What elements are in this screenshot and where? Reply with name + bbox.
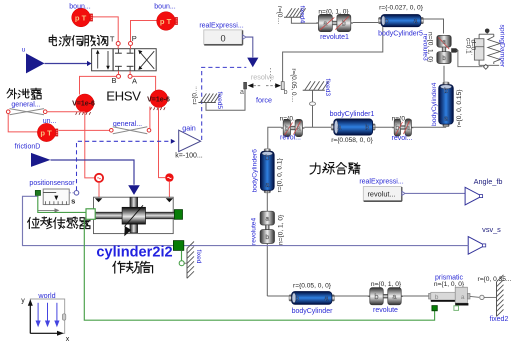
wire into cylinder right port [168, 182, 170, 198]
output nub realExpression2 [402, 191, 405, 195]
svg-text:n={0, 1, 0}: n={0, 1, 0} [427, 32, 434, 63]
svg-text:fixed4: fixed4 [298, 6, 305, 24]
text 力综合臂 [310, 163, 360, 174]
cylinder left fluid port circle [95, 174, 103, 182]
svg-text:a: a [406, 125, 410, 132]
output nub realExpression [243, 35, 246, 39]
bodyCylinder4 [439, 82, 454, 127]
wire revolute4 foot to bodyCylinder [267, 295, 291, 297]
svg-text:bodyCylinder: bodyCylinder [292, 308, 334, 315]
cylinder piston [122, 197, 145, 236]
node general2 right [147, 129, 151, 133]
arrow frictionD into cylinder [128, 185, 140, 195]
svg-text:revolute: revolute [373, 307, 398, 314]
wire realExpression to force [246, 37, 253, 57]
wire realExpression2 to Angle_fb [405, 192, 465, 194]
volume1 V=1e-6 [76, 94, 94, 115]
svg-text:springDamper: springDamper [499, 25, 506, 68]
svg-text:y: y [21, 298, 25, 305]
svg-text:revolute4: revolute4 [251, 218, 258, 245]
arrow into cylinder left port [96, 197, 102, 201]
svg-text:vsv_s: vsv_s [482, 225, 501, 234]
svg-text:force: force [256, 96, 272, 105]
svg-text:b: b [375, 294, 379, 301]
spring damper attachment nub [451, 48, 458, 52]
svg-text:fixed5: fixed5 [216, 92, 223, 110]
svg-text:boun...: boun... [154, 3, 175, 10]
fixed anchor circle [179, 261, 184, 266]
prismatic support square (green) [432, 306, 437, 311]
svg-text:p T: p T [75, 13, 87, 22]
fixed3 wire ellipse marker [309, 102, 315, 106]
svg-text:b: b [285, 126, 289, 133]
wire frictionD to cylinder [51, 160, 135, 185]
svg-text:a: a [337, 125, 341, 132]
svg-text:positionsensor: positionsensor [29, 180, 75, 187]
svg-text:a: a [324, 296, 328, 303]
svg-text:general...: general... [11, 101, 40, 108]
svg-text:a: a [444, 116, 448, 123]
svg-text:n={0, 1, 0}: n={0, 1, 0} [277, 214, 284, 245]
svg-text:b: b [385, 18, 389, 25]
valve port node B [117, 74, 121, 78]
bodyCylinder1 [331, 119, 375, 135]
svg-text:a: a [323, 21, 327, 28]
svg-text:r={0.05, 0....: r={0.05, 0.... [290, 68, 297, 102]
fixed4 hatch wall [284, 8, 306, 17]
positionsensor flange square [35, 190, 40, 195]
wire long vsv_s signal [23, 196, 469, 245]
svg-text:r={0, 0, 0.1}: r={0, 0, 0.1} [276, 157, 283, 192]
bodyCylinder5 [378, 15, 423, 27]
positionsensor box [43, 189, 69, 205]
text 电液伺服阀 [49, 35, 108, 46]
wire volume2 down to cylinder right port [159, 107, 166, 177]
valve centre cell blocked ports [115, 49, 134, 71]
svg-text:u: u [22, 47, 26, 54]
volume2 V=1e-6 [150, 90, 168, 110]
wire T-port to boundary1 [92, 17, 118, 41]
arrow into gain [171, 139, 176, 144]
svg-text:b: b [395, 125, 399, 132]
svg-text:cylinder2i2: cylinder2i2 [96, 244, 172, 260]
bodyCylinder6 [260, 149, 274, 193]
boundary source un (pT) [37, 123, 57, 141]
wire bodyCylinder4 down to arm [445, 124, 447, 127]
wire u to valve [45, 63, 88, 65]
svg-text:fixed3: fixed3 [324, 79, 331, 97]
svg-text:boun...: boun... [69, 3, 90, 10]
svg-text:bodyCylinder5: bodyCylinder5 [378, 30, 423, 37]
svg-text:n={0, 1, 0}: n={0, 1, 0} [371, 281, 402, 288]
cylinder2i2 actuator body [94, 197, 174, 233]
wire bodyCylinder to revolute [332, 295, 368, 297]
cylinder left rod flange square [86, 209, 95, 220]
boundary source boun2 (pT) [157, 12, 178, 31]
svg-text:a: a [413, 18, 417, 25]
svg-text:P: P [132, 34, 137, 43]
wire force b up to linkage [283, 25, 383, 81]
svg-text:realExpressi...: realExpressi... [359, 179, 403, 186]
svg-text:world: world [37, 291, 55, 300]
svg-text:s: s [71, 196, 75, 205]
svg-text:bodyCylinder4: bodyCylinder4 [431, 82, 438, 126]
wire revolute3 to bodyCylinder4 [443, 66, 445, 85]
svg-text:b: b [444, 88, 448, 95]
green wire cylinder flange to fixed [181, 250, 183, 260]
wire revolute5 to bodyCylinder4 foot [413, 126, 446, 128]
svg-text:V=1e-6: V=1e-6 [72, 101, 95, 108]
svg-text:realExpressi...: realExpressi... [199, 22, 243, 29]
revolute joint revolute3 [437, 35, 451, 63]
sensor motion arrow [38, 208, 60, 212]
svg-text:r={0, 0, 0.15}: r={0, 0, 0.15} [456, 89, 463, 128]
wire bodyCylinder1 to revolute5 [373, 126, 393, 128]
svg-text:fixed2: fixed2 [490, 316, 509, 323]
svg-text:r={0.058, 0, 0}: r={0.058, 0, 0} [331, 137, 373, 144]
wire fixed4 to revolute1 [291, 17, 316, 23]
wire into cylinder left port [98, 182, 100, 197]
svg-text:p T: p T [160, 17, 172, 26]
node general1 left [6, 110, 10, 114]
arrow into force input [247, 58, 258, 68]
svg-text:EHSV: EHSV [106, 89, 141, 104]
boundary source boun1 (pT) [72, 8, 93, 27]
svg-text:b: b [295, 296, 299, 303]
svg-text:r={0....: r={0.... [276, 6, 283, 25]
world gravity frame [28, 299, 66, 336]
green wire sensor flange to cylinder rod [38, 196, 86, 213]
output connector Angle_fb [465, 187, 483, 205]
valve port node A [128, 74, 132, 78]
svg-text:0: 0 [220, 33, 225, 43]
svg-text:bodyCylinder1: bodyCylinder1 [330, 111, 375, 118]
valve left cell arrows [96, 50, 110, 70]
stub B [118, 71, 120, 75]
valve port node P [129, 42, 133, 46]
dashed wire gain to force input [202, 67, 247, 140]
svg-text:T: T [110, 35, 115, 44]
realExpression2 block [363, 187, 402, 202]
svg-text:d=0...: d=0... [469, 40, 476, 56]
springDamper component [474, 29, 500, 70]
svg-text:a: a [265, 182, 269, 189]
cylinder support flange square (green) [173, 241, 183, 251]
fixed2 connector circle [480, 295, 484, 299]
svg-text:B: B [111, 76, 116, 85]
svg-text:b: b [265, 234, 269, 241]
fixed3 hatch wall [303, 81, 329, 90]
svg-text:p T: p T [40, 128, 52, 137]
svg-text:resolve: resolve [251, 72, 274, 81]
wire fixed3 down to arm [312, 90, 314, 127]
svg-text:fixed: fixed [195, 250, 202, 264]
arrow into cylinder right port [166, 197, 172, 201]
svg-text:Angle_fb: Angle_fb [474, 177, 503, 186]
wire revolute2 to bodyCylinder1 [304, 126, 333, 128]
valve port node T [116, 42, 120, 46]
wire bodyCylinder5 to revolute3 [422, 19, 444, 34]
svg-text:b: b [365, 125, 369, 132]
throttle general2 crossed lines [113, 127, 148, 134]
svg-text:revolut...: revolut... [368, 190, 396, 199]
wire into fixed2 [484, 296, 496, 298]
svg-text:b: b [342, 21, 346, 28]
cylinder rod [94, 212, 177, 219]
cylinder right rod flange square (green) [174, 210, 182, 220]
svg-text:b: b [442, 55, 446, 62]
text 位移传感器 [28, 217, 90, 229]
svg-text:b: b [435, 294, 439, 301]
text 外泄露 [7, 88, 41, 99]
output connector vsv_s [468, 237, 486, 255]
svg-text:a: a [393, 294, 397, 301]
wire A to volume2 [132, 76, 156, 90]
wire revolute to prismatic [403, 295, 430, 297]
svg-text:A: A [132, 76, 137, 85]
wire P-port to boundary2 [131, 21, 157, 42]
svg-text:bodyCylinder6: bodyCylinder6 [252, 149, 259, 193]
sensor output circle [74, 191, 79, 196]
svg-text:a: a [461, 294, 465, 301]
revolute joint revolute4 [260, 211, 274, 243]
fixed hatch wall [187, 242, 194, 279]
svg-text:revolute1: revolute1 [320, 34, 349, 41]
valve right cell crossed arrows [138, 50, 154, 70]
wire prismatic to fixed2 [470, 295, 479, 298]
wire general1 left down to tank bus [8, 114, 37, 132]
revolute joint revolute5 [392, 119, 413, 136]
green wire cylinder body to prismatic support [84, 219, 434, 320]
servo valve 4/3 directional valve body [92, 49, 157, 71]
svg-text:a: a [297, 126, 301, 133]
sensor output stub [69, 192, 74, 194]
fixed stub [184, 262, 187, 264]
svg-text:b: b [265, 155, 269, 162]
text 作动筒 [113, 261, 153, 273]
svg-text:general...: general... [113, 121, 142, 128]
wire revolute4 down to bottom chain [266, 244, 268, 296]
svg-text:b: b [284, 89, 288, 96]
stub A [129, 71, 131, 75]
wire general1 right to volume1 drop [47, 111, 85, 113]
svg-text:revol...: revol... [280, 135, 301, 142]
throttle general1 crossed lines [10, 109, 45, 115]
wire revolute3 to springDamper [457, 50, 483, 66]
wire fixed5 to force a [206, 89, 245, 110]
input u connector triangle [22, 47, 45, 74]
frictionD input connector [15, 144, 51, 167]
node general1 right [43, 110, 47, 114]
force component [244, 82, 285, 90]
wire bodyCylinder6 to revolute4 [266, 191, 268, 211]
revolute joint revolute2 [281, 119, 304, 136]
svg-text:r={0.05, 0, 0}: r={0.05, 0, 0} [293, 282, 332, 289]
svg-text:a: a [265, 216, 269, 223]
wire volume1 down to cylinder left port [85, 112, 95, 177]
svg-text:frictionD: frictionD [15, 144, 41, 151]
node general2 left [110, 129, 114, 133]
svg-text:a: a [442, 39, 446, 46]
svg-text:a: a [240, 89, 244, 96]
prismatic joint [429, 287, 470, 305]
wire un to general2 [59, 129, 110, 131]
wire revolute1 to bodyCylinder5 [353, 22, 381, 24]
wire general2 right up to volume2 [149, 107, 151, 129]
wire arm horizontal revolute2 to bodyCylinder6 corner [268, 127, 282, 149]
svg-text:revol...: revol... [391, 135, 412, 142]
stub P [130, 46, 132, 49]
revolute joint revolute [368, 288, 403, 305]
fixed5 hatch wall [198, 94, 220, 103]
bodyCylinder [289, 292, 335, 305]
gain block triangle [179, 130, 201, 151]
fixed2 hatch wall [497, 275, 504, 317]
realExpression block 0 [204, 30, 243, 45]
svg-text:r={0....: r={0.... [191, 86, 198, 105]
dashed wire sensor to gain [77, 141, 171, 190]
wire B to volume1 [80, 76, 117, 94]
svg-text:r={0, 0.35...: r={0, 0.35... [478, 276, 512, 283]
svg-text:r={-0.027, 0, 0}: r={-0.027, 0, 0} [379, 4, 424, 11]
cylinder right fluid port circle [165, 173, 173, 181]
svg-text:x: x [66, 336, 70, 343]
dotted resolve stub [270, 68, 272, 82]
prismatic support square (open) [454, 306, 459, 311]
svg-text:gain: gain [182, 124, 196, 133]
svg-text:V=1e-6: V=1e-6 [147, 97, 170, 104]
stub T [117, 46, 119, 49]
svg-text:k=-100...: k=-100... [175, 153, 202, 160]
revolute joint revolute1 [316, 14, 352, 31]
